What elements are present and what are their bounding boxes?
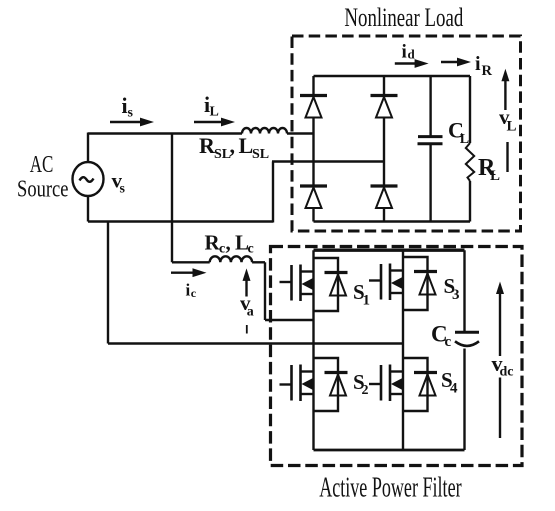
svg-text:L: L xyxy=(490,168,500,184)
svg-text:L: L xyxy=(507,119,517,135)
svg-text:s: s xyxy=(120,182,126,197)
svg-text:,: , xyxy=(230,133,236,158)
svg-text:R: R xyxy=(482,63,493,79)
svg-text:L: L xyxy=(460,132,469,147)
svg-text:i: i xyxy=(475,53,481,75)
svg-text:a: a xyxy=(247,305,254,320)
svg-text:i: i xyxy=(186,281,191,300)
svg-text:c: c xyxy=(191,286,197,300)
svg-text:Nonlinear Load: Nonlinear Load xyxy=(344,3,463,32)
svg-text:c: c xyxy=(445,334,452,350)
svg-text:3: 3 xyxy=(452,287,460,303)
svg-text:1: 1 xyxy=(363,293,371,309)
svg-text:c: c xyxy=(219,242,225,257)
svg-text:dc: dc xyxy=(500,365,514,380)
svg-text:c: c xyxy=(248,242,254,257)
svg-text:,: , xyxy=(226,231,231,255)
svg-text:L: L xyxy=(210,105,219,120)
svg-text:2: 2 xyxy=(362,383,369,398)
svg-text:s: s xyxy=(128,106,134,121)
svg-text:d: d xyxy=(408,47,416,62)
svg-text:SL: SL xyxy=(252,147,269,162)
svg-text:Active Power Filter: Active Power Filter xyxy=(319,473,462,504)
svg-text:Source: Source xyxy=(17,177,69,203)
svg-text:i: i xyxy=(402,42,407,63)
svg-text:L: L xyxy=(239,133,254,158)
svg-text:AC: AC xyxy=(30,152,54,178)
svg-text:4: 4 xyxy=(450,381,458,397)
